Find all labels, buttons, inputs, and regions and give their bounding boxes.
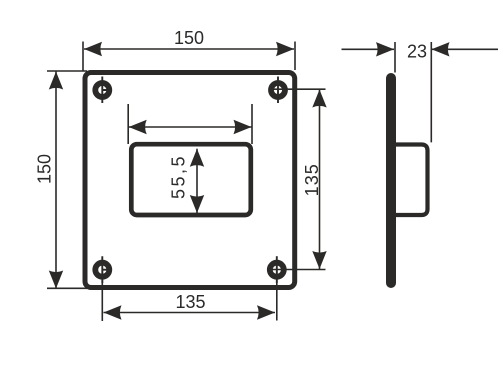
bottom dimension 135: extension lines (102, 270, 276, 321)
side view: rear protrusion (393, 145, 428, 216)
cutout rectangle (131, 144, 251, 215)
depth dimension 23: left arrowhead (points right) (376, 42, 394, 56)
top dimension 150: extension lines (83, 42, 295, 72)
cutout width dimension: left arrowhead (129, 120, 147, 134)
bottom dimension 135: dimension line (104, 312, 276, 314)
svg-text:150: 150 (174, 28, 204, 48)
svg-text:135: 135 (175, 292, 205, 312)
top dimension 150: right arrowhead (276, 42, 294, 56)
side view: plate bar (386, 78, 396, 283)
svg-text:135: 135 (302, 163, 322, 196)
bottom dimension 135: right arrowhead (257, 305, 275, 319)
svg-text:150: 150 (35, 154, 55, 184)
right dimension 135: top arrowhead (312, 90, 326, 108)
hole bottom-right (270, 256, 284, 283)
cutout width dimension (unlabeled): extension lines (128, 104, 252, 144)
hole bottom-left (95, 256, 109, 283)
right dimension 135: bottom arrowhead (312, 251, 326, 269)
depth dimension 23: right arrowhead (points left) (432, 42, 450, 56)
cutout height dimension 55,5: dimension line (196, 149, 198, 213)
top dimension 150: dimension line (84, 48, 294, 50)
depth dimension 23: extension lines (395, 42, 431, 142)
depth dimension 23: right arrow line (432, 48, 499, 50)
left dimension 150: extension lines (47, 71, 87, 288)
cutout width dimension: dimension line (129, 126, 252, 128)
left dimension 150: top arrowhead (49, 72, 63, 90)
top dimension 150: left arrowhead (84, 42, 102, 56)
plate outline (front view) (85, 73, 295, 288)
cutout height dimension: bottom arrowhead (190, 195, 204, 213)
right dimension 135: extension lines (272, 89, 326, 269)
left dimension 150: dimension line (55, 72, 57, 289)
svg-text:23: 23 (407, 42, 427, 62)
svg-text:55,5: 55,5 (169, 154, 189, 199)
hole top-right (271, 77, 285, 104)
right dimension 135: dimension line (319, 90, 321, 270)
left dimension 150: bottom arrowhead (49, 271, 63, 289)
bottom dimension 135: left arrowhead (104, 305, 122, 319)
cutout width dimension: right arrowhead (234, 120, 252, 134)
hole top-left (95, 77, 109, 104)
depth dimension 23: left arrow line (342, 48, 395, 50)
cutout height dimension: top arrowhead (190, 149, 204, 167)
